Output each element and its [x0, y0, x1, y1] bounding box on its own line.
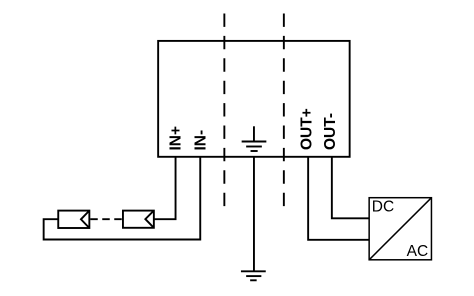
- connector X1 body: [58, 211, 89, 228]
- dashed link between connectors: [90, 218, 123, 220]
- bottom earth ground bars: [241, 270, 266, 272]
- dashed partition line right: [283, 14, 285, 207]
- dashed partition line left: [223, 14, 225, 207]
- power supply module outline U1: [158, 41, 349, 157]
- svg-text:OUT+: OUT+: [298, 108, 315, 150]
- connector X1 chevron: [81, 211, 89, 228]
- internal ground symbol stem: [253, 126, 255, 141]
- connector X2 body: [123, 211, 154, 228]
- svg-text:IN-: IN-: [192, 130, 209, 151]
- svg-text:OUT-: OUT-: [322, 113, 339, 150]
- wire earth terminal to ground: [253, 157, 255, 271]
- internal ground symbol bars: [242, 141, 267, 143]
- connector X2 chevron: [145, 211, 154, 228]
- wire OUT- terminal to converter: [332, 157, 369, 219]
- wire IN- terminal loop: [44, 157, 201, 240]
- wire OUT+ terminal to converter: [308, 157, 369, 240]
- DC/AC converter diagonal: [369, 198, 431, 260]
- svg-text:IN+: IN+: [168, 126, 185, 151]
- wire IN+ terminal to connector: [154, 157, 176, 219]
- DC/AC converter box: [369, 198, 431, 260]
- svg-text:AC: AC: [407, 243, 429, 260]
- svg-text:DC: DC: [372, 199, 394, 216]
